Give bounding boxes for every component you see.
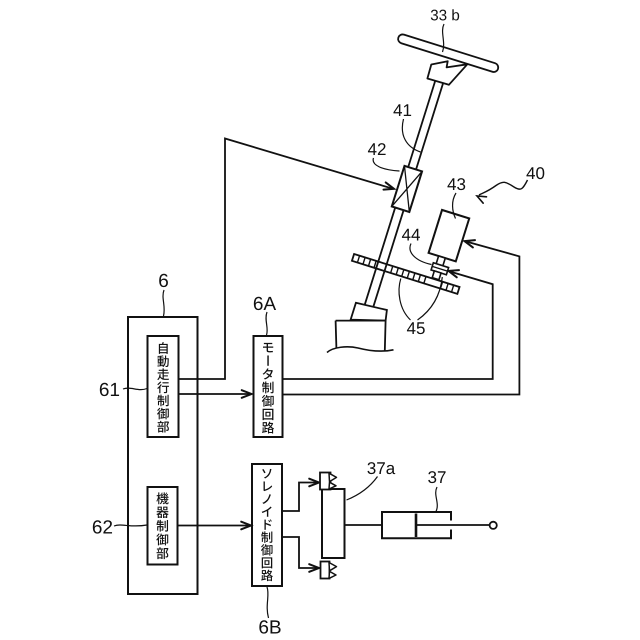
cylinder 37 [382,512,451,538]
arrowhead at joint 42 [384,182,395,189]
steering wheel rim 33b [397,33,499,73]
wire arrow 61 to 6A [179,393,250,395]
universal joint / torque sensor 42 [392,166,422,212]
label 62 [93,520,112,533]
motor control circuit box 6A [254,336,283,437]
wire 6A to motor 43 [283,242,520,395]
label 33b [431,9,459,20]
label 40 [526,167,544,179]
label 6 [159,274,168,287]
leader for 33b [443,24,445,52]
label 61 [100,383,119,396]
vertical text 自動走行制御部 [157,342,169,432]
solenoid control circuit box 6B [252,464,282,586]
arrowhead of 40 [477,196,487,203]
label 44 [402,229,420,241]
arrowhead at valve top [309,479,319,487]
label 41 [393,104,411,116]
steering gear box [336,321,386,351]
leader for 43 [453,193,456,219]
leader left for 45 [399,279,410,321]
label 45 [407,322,425,334]
wire 6B to valve bottom [282,537,317,568]
rod end circle [490,522,497,529]
steering shaft lower section [362,208,404,318]
steering wheel hub [427,61,467,85]
valve top port block [320,473,331,490]
label 43 [447,178,465,190]
valve bottom port block [321,562,330,579]
leader for 61 [123,388,147,390]
controller box 6 [128,317,198,594]
leader for 44 [410,244,432,265]
wire 61 to steering actuator (up and diagonal) [179,139,392,380]
vertical text 機器制御部 [156,492,168,559]
wire arrow 62 to 6B [178,525,249,527]
arrowhead into 6A [242,390,252,398]
valve top triangles [329,473,337,489]
leader for 6A [266,312,267,335]
vertical text モータ制御回路 [262,343,274,434]
label 42 [368,143,386,155]
squiggle arrow for 40 [479,180,528,195]
leader for 6B [267,587,269,618]
arrowhead into 6B [241,522,251,530]
wire 6B to valve top [282,483,317,512]
valve bottom triangles [329,563,337,579]
device control box 62 [148,487,178,565]
leader for 37a [347,477,378,501]
piston rod right [416,524,490,526]
wire 6A to worm gear 44 [283,271,493,379]
leader right for 45 [418,277,443,320]
leader for 62 [114,525,147,526]
leader for 42 [373,158,399,171]
steering shaft 41 (upper section) [407,72,446,174]
label 6A [254,297,276,310]
leader for 6 [163,290,164,316]
motor 43 [429,210,470,261]
vertical text ソレノイド制御回路 [261,469,273,581]
label 37 [428,471,445,483]
arrowhead at motor 43 [465,240,476,247]
steering gear housing wedge [351,303,387,321]
leader for 41 [402,119,420,152]
label 37a [367,462,395,474]
worm gear 44 flange [431,263,449,275]
arrowhead at 44 [449,270,460,277]
arrowhead at valve bottom [309,564,319,572]
automatic driving control box 61 [148,336,179,437]
solenoid valve body 37a [322,489,345,558]
steering gear rack 45 [352,254,460,294]
motor output shaft [436,256,445,267]
piston [415,514,418,538]
worm gear 44 pinion [432,271,441,280]
label 6B [259,620,280,633]
piston rod left [345,524,383,526]
leader for 37 [436,487,438,512]
break wavy line [327,347,394,353]
